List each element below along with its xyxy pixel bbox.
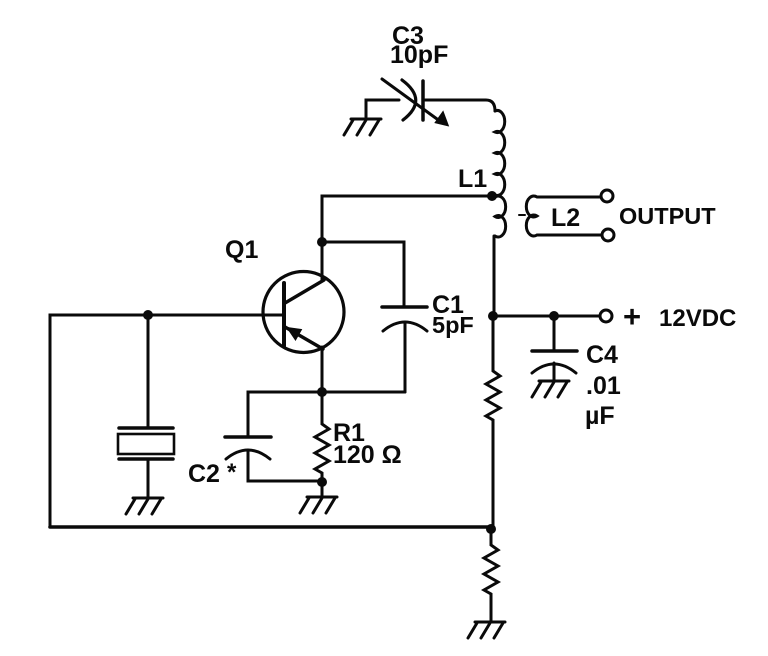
capacitor C2 [225,437,322,481]
inductor L1 (lower 2 turns) [495,196,506,237]
wire supply node to 12VDC terminal [493,315,599,318]
svg-text:OUTPUT: OUTPUT [619,203,716,229]
inductor L1 (upper 4 turns) [495,110,505,195]
wire node to C2 top [248,392,322,437]
wire C3 left segment [366,100,399,117]
svg-text:*: * [227,459,237,486]
wire C3 to L1 top [425,100,495,111]
svg-text:12VDC: 12VDC [659,305,736,332]
node bottom rail junction [486,524,496,534]
node collector/C1 junction [317,237,327,247]
terminal OUTPUT bottom [602,229,614,241]
wire base lead [50,315,283,527]
svg-text:+: + [623,299,641,334]
svg-text:.01: .01 [586,372,621,400]
ground at C4 [532,381,569,397]
wire artifact near L2 [519,214,525,216]
wire bottom rail [50,525,491,529]
ground at lower right resistor [468,622,505,638]
wire L1 bottom to supply node [493,236,496,316]
wire emitter to node [321,347,324,392]
resistor upper right [486,316,500,529]
capacitor C4 [532,316,577,380]
node base junction [143,310,153,320]
ground at C3 [344,119,381,135]
terminal OUTPUT top [601,190,613,202]
wire L1 tap to collector riser [322,196,492,281]
svg-text:L1: L1 [458,165,487,193]
resistor R1 [315,392,329,482]
ground at crystal [126,498,163,514]
node emitter junction [317,387,327,397]
svg-text:L2: L2 [551,204,580,232]
inductor L2 [526,196,602,236]
capacitor C1 [382,307,427,392]
svg-text:Q1: Q1 [225,236,258,264]
svg-text:5pF: 5pF [432,312,474,338]
node R1 bottom [317,477,327,487]
svg-text:C2: C2 [188,460,220,488]
node C4 tap [549,311,559,321]
capacitor C3 (variable) [382,79,448,126]
ground at R1 [300,497,337,513]
svg-text:µF: µF [585,402,615,430]
node L1 tap [487,191,497,201]
node supply junction [488,311,498,321]
transistor Q1 [263,272,344,353]
svg-text:120 Ω: 120 Ω [333,441,402,469]
wire C1 bottom to emitter node [322,391,405,394]
crystal Y1 [118,428,174,497]
resistor lower right [484,529,498,621]
svg-text:C4: C4 [586,341,618,369]
terminal 12VDC [600,310,612,322]
wire base node to crystal [147,315,150,427]
svg-text:10pF: 10pF [390,41,448,69]
wire junction to C1 top [322,242,404,307]
wire R1 bottom stub [321,482,324,496]
